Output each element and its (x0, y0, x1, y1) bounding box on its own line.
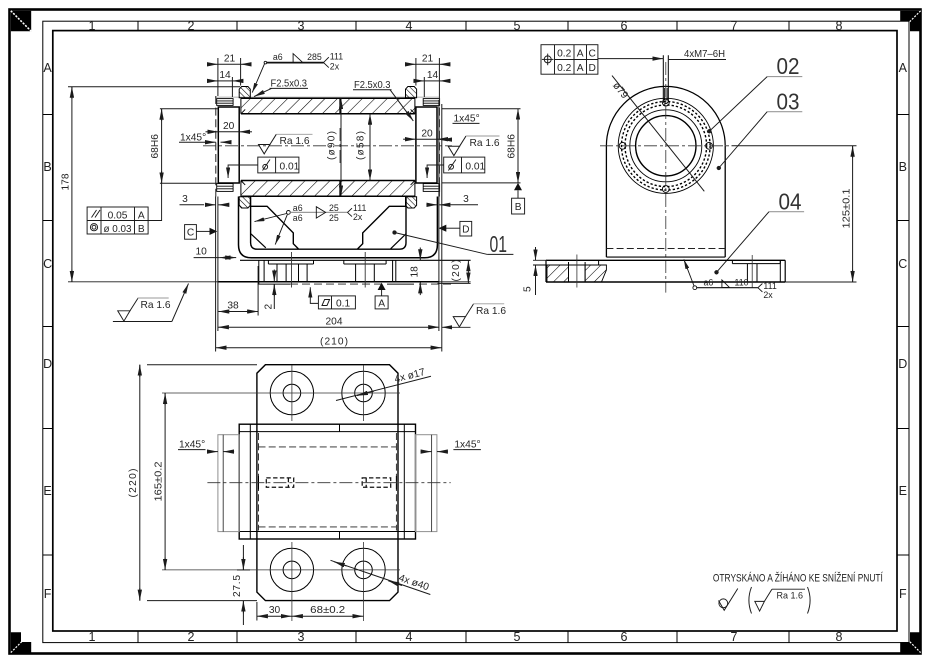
svg-text:1x45°: 1x45° (179, 440, 205, 451)
spotface hole top-left (270, 371, 313, 414)
svg-text:E: E (43, 484, 51, 498)
grid labels right (898, 61, 907, 601)
grid labels left (43, 61, 52, 601)
SECTION-VIEW (61, 51, 525, 351)
cavity walls and floor (251, 196, 406, 249)
spotface hole bottom-right (342, 548, 385, 591)
svg-text:C: C (589, 48, 596, 59)
dimension 27.5 (237, 545, 250, 625)
svg-text:285: 285 (307, 52, 322, 62)
svg-text:14: 14 (219, 70, 231, 81)
hole note 4x ø40 (330, 550, 433, 595)
svg-text:8: 8 (836, 19, 843, 33)
tolerance frame parallel+concentric (87, 183, 162, 234)
ring face circle (618, 98, 713, 193)
svg-text:B: B (899, 160, 907, 174)
NOTE (713, 572, 884, 614)
svg-text:Ra 1.6: Ra 1.6 (476, 306, 506, 317)
svg-text:4: 4 (406, 19, 413, 33)
bracket body outline (239, 197, 438, 258)
svg-text:F: F (44, 587, 52, 601)
right foot recess (732, 260, 780, 282)
hidden weld root line (606, 248, 725, 250)
foot hole edges (568, 262, 570, 282)
svg-text:1: 1 (89, 630, 96, 644)
svg-text:D: D (462, 225, 469, 236)
tube joint marks (339, 424, 341, 431)
dimension 5 (535, 247, 537, 295)
right foot hole centreline (751, 255, 753, 288)
right cap thread collar top (423, 99, 439, 106)
bolt hole left (619, 142, 626, 149)
svg-text:B: B (138, 224, 145, 235)
corner trim mark top-left (11, 11, 31, 31)
svg-text:03: 03 (777, 88, 800, 114)
svg-text:2: 2 (264, 304, 275, 310)
svg-text:7: 7 (731, 630, 738, 644)
svg-text:4xM7–6H: 4xM7–6H (684, 49, 725, 60)
view centreline horizontal (203, 145, 452, 147)
svg-text:2x: 2x (353, 212, 363, 222)
hidden bore lines (259, 433, 397, 531)
bolt hole top (662, 99, 669, 106)
leader to stud (598, 58, 663, 60)
left foot slot centreline (291, 252, 293, 288)
dimension 21 right (405, 58, 450, 96)
weld symbol base (684, 259, 763, 292)
weld symbol top (252, 54, 329, 93)
housing outer arc (606, 86, 725, 145)
base bottom extension to 125 dim (785, 281, 856, 283)
svg-text:ø 0.03: ø 0.03 (104, 224, 132, 235)
surface mark Ra 1.6 right-mid (448, 136, 466, 156)
svg-text:D: D (589, 63, 596, 74)
dimension 125±0.1 (732, 146, 857, 282)
svg-text:04: 04 (779, 188, 802, 214)
svg-text:5: 5 (522, 286, 533, 292)
svg-text:6: 6 (621, 630, 628, 644)
left recess step line (533, 264, 599, 266)
svg-text:A: A (43, 61, 52, 75)
tube upper wall (hatched) (241, 98, 415, 114)
svg-text:a6: a6 (293, 203, 303, 213)
base hatch left (547, 265, 569, 282)
dimension 20 left (206, 131, 253, 133)
runout frame right 0.01 (427, 157, 485, 178)
cavity ceiling left with chamfer (251, 206, 299, 249)
hole note 4x ø17 (333, 366, 431, 401)
dimension (ø90) (340, 98, 342, 196)
base plate bottom edge (218, 281, 439, 283)
tube body rectangle (239, 424, 415, 539)
dimension 14 right (413, 77, 450, 97)
svg-text:110: 110 (735, 278, 749, 288)
view centreline (207, 482, 450, 484)
svg-text:3: 3 (182, 194, 188, 205)
weld symbol cavity (255, 207, 353, 245)
dimension 2 (273, 270, 275, 310)
svg-text:(ø58): (ø58) (356, 131, 367, 160)
surface mark Ra 1.6 bottom-right (442, 304, 474, 328)
stud hole top (663, 55, 668, 103)
centreline vertical (665, 62, 667, 293)
svg-text:2: 2 (188, 630, 195, 644)
svg-text:2x: 2x (763, 290, 773, 300)
svg-text:A: A (577, 48, 584, 59)
bore circle (636, 116, 696, 176)
svg-text:27.5: 27.5 (232, 575, 243, 597)
dimension 68H6 left (160, 109, 218, 184)
svg-text:68H6: 68H6 (150, 134, 161, 159)
window edge right (391, 234, 406, 249)
dimension 18 (419, 248, 421, 296)
corner trim mark top-right (900, 11, 920, 31)
tube wall lines (239, 431, 415, 433)
svg-text:Ra 1.6: Ra 1.6 (470, 138, 500, 149)
dimension 21 left (207, 58, 252, 96)
centre cross vertical (339, 128, 341, 164)
left cap face hidden line (215, 96, 217, 197)
svg-text:OTRYSKÁNO A ŽÍHÁNO KE SNÍŽENÍ: OTRYSKÁNO A ŽÍHÁNO KE SNÍŽENÍ PNUTÍ (713, 572, 884, 585)
roughness symbol in note (755, 589, 805, 611)
grid labels bottom (89, 630, 843, 644)
svg-text:0.01: 0.01 (465, 161, 485, 172)
seal ring inner (dotted) (625, 105, 707, 187)
spotface hole top-right (342, 371, 385, 414)
surface mark Ra 1.6 left-mid (259, 134, 277, 154)
svg-text:D: D (898, 357, 907, 371)
svg-text:20: 20 (421, 128, 433, 139)
faint groove line above tube (215, 96, 440, 98)
base plate top edge (240, 259, 471, 261)
svg-text:7: 7 (731, 19, 738, 33)
flange ring top-left (hatched) (239, 87, 250, 98)
svg-text:C: C (187, 228, 194, 239)
svg-text:6: 6 (621, 19, 628, 33)
svg-text:Ra 1.6: Ra 1.6 (280, 136, 310, 147)
svg-text:38: 38 (227, 301, 239, 312)
svg-text:204: 204 (326, 317, 343, 328)
svg-text:02: 02 (777, 53, 800, 79)
left end cap body (218, 107, 239, 183)
flatness frame 0.1 (310, 287, 355, 309)
seal ring outer (dotted) (622, 102, 711, 191)
bore line long dashes at centreline (258, 476, 260, 490)
base hatch right of hole (585, 265, 606, 282)
svg-text:(210): (210) (320, 337, 348, 348)
svg-text:68±0.2: 68±0.2 (310, 605, 345, 616)
svg-text:01: 01 (490, 231, 508, 257)
svg-text:165±0.2: 165±0.2 (154, 461, 165, 501)
flange ring bottom-right (hatched) (406, 197, 417, 208)
datum D (460, 221, 472, 236)
svg-text:0.01: 0.01 (280, 161, 300, 172)
TOP-VIEW (128, 365, 481, 625)
svg-text:a6: a6 (273, 52, 283, 62)
weld seam line (606, 256, 725, 258)
FRONT-VIEW (522, 45, 856, 300)
counterbore circle (630, 110, 702, 182)
svg-text:3: 3 (298, 19, 305, 33)
svg-text:18: 18 (409, 266, 420, 278)
bolt hole right (706, 142, 713, 149)
hole centrelines top row (162, 392, 400, 394)
dimension (ø58) (369, 114, 371, 181)
svg-text:1: 1 (89, 19, 96, 33)
spotface hole bottom-left (270, 548, 313, 591)
svg-text:B: B (43, 160, 51, 174)
svg-text:0.2: 0.2 (557, 48, 571, 59)
position tolerance frame (541, 45, 598, 74)
bottom column ticks (137, 631, 139, 643)
svg-text:20: 20 (223, 121, 235, 132)
right cap face hidden line (438, 96, 440, 197)
svg-text:68H6: 68H6 (507, 134, 518, 159)
flange ring top-right (hatched) (406, 87, 417, 98)
parenthesis left (749, 587, 752, 614)
left foot grooves (259, 260, 314, 284)
bore chamfer ticks (241, 109, 245, 113)
svg-text:4: 4 (406, 630, 413, 644)
hidden pad line under base (258, 283, 290, 285)
end cap right (light) (416, 435, 437, 532)
svg-text:0.2: 0.2 (557, 63, 571, 74)
corner trim mark bottom-left (11, 632, 31, 652)
dimension (220) (140, 365, 257, 601)
dimension 20 right (403, 138, 450, 140)
svg-text:2x: 2x (330, 62, 340, 72)
svg-text:D: D (43, 357, 52, 371)
base left end (545, 260, 547, 282)
left cap thread collar top (217, 99, 233, 106)
svg-text:F: F (899, 587, 907, 601)
left row ticks (43, 114, 53, 116)
svg-text:(220): (220) (128, 469, 139, 498)
svg-text:25: 25 (329, 203, 339, 213)
base plate bottom (546, 281, 785, 283)
svg-text:0.05: 0.05 (108, 210, 128, 221)
svg-text:E: E (899, 484, 907, 498)
svg-text:B: B (515, 202, 522, 213)
svg-text:21: 21 (422, 54, 434, 65)
svg-text:25: 25 (329, 213, 339, 223)
dimension (20) (438, 260, 471, 283)
svg-text:111: 111 (330, 51, 343, 61)
svg-text:1x45°: 1x45° (454, 440, 480, 451)
press joint line between tube halves (339, 98, 341, 114)
top column ticks (137, 21, 139, 30)
base bottom extension line (68, 281, 218, 283)
svg-text:(20): (20) (451, 260, 462, 282)
svg-text:Ra 1.6: Ra 1.6 (141, 300, 171, 311)
tube lower wall (hatched) (241, 181, 415, 197)
datum A (378, 283, 386, 290)
svg-text:21: 21 (224, 54, 236, 65)
dimension 178 (68, 87, 240, 282)
keyway hidden right (362, 478, 391, 487)
right foot slot centreline (364, 252, 366, 288)
bolt hole bottom (662, 186, 669, 193)
flange ring bottom-left (hatched) (239, 197, 250, 208)
surface mark Ra 1.6 bottom-left (113, 284, 189, 322)
svg-text:5: 5 (514, 19, 521, 33)
window edge left (251, 234, 266, 248)
svg-text:(ø90): (ø90) (327, 131, 338, 160)
dimension 68H6 right (442, 109, 521, 183)
svg-text:10: 10 (196, 247, 208, 258)
svg-text:a6: a6 (704, 278, 714, 288)
svg-text:Ra 1.6: Ra 1.6 (777, 590, 804, 600)
svg-text:3: 3 (463, 194, 469, 205)
svg-text:3: 3 (298, 630, 305, 644)
svg-text:0.1: 0.1 (336, 298, 350, 309)
svg-text:5: 5 (514, 630, 521, 644)
end cap left (light) (218, 435, 239, 532)
cavity ceiling right with chamfer (358, 206, 406, 249)
svg-text:A: A (378, 298, 385, 309)
svg-text:125±0.1: 125±0.1 (841, 188, 852, 228)
svg-text:A: A (138, 210, 145, 221)
centreline horizontal (600, 145, 732, 147)
svg-text:14: 14 (427, 70, 439, 81)
right end cap body (416, 107, 437, 183)
housing sides (605, 146, 607, 257)
svg-text:2: 2 (188, 19, 195, 33)
datum C (185, 225, 197, 240)
svg-text:A: A (899, 61, 908, 75)
svg-text:30: 30 (269, 605, 281, 616)
right foot grooves (344, 260, 396, 282)
foot hole centreline (576, 255, 578, 288)
ø79 diameter line (612, 76, 704, 192)
corner trim mark bottom-right (900, 632, 920, 652)
left cap thread collar bottom (217, 184, 233, 192)
svg-text:8: 8 (836, 630, 843, 644)
base plate top (546, 259, 785, 261)
parenthesis right (808, 587, 811, 614)
svg-text:a6: a6 (293, 213, 303, 223)
base plate outline (257, 365, 398, 601)
base right end (784, 260, 786, 282)
keyway hidden left (266, 478, 293, 487)
right row ticks (897, 114, 909, 116)
grid labels top (89, 19, 843, 33)
datum B (514, 183, 522, 190)
base right chamfer line (779, 260, 781, 282)
dimension 165±0.2 (164, 393, 166, 570)
runout frame left 0.01 (228, 157, 299, 178)
hole centrelines bottom row (162, 569, 400, 571)
svg-text:178: 178 (61, 173, 72, 190)
dimension 14 left (207, 77, 243, 97)
svg-text:A: A (577, 63, 584, 74)
svg-text:C: C (898, 257, 907, 271)
right cap thread collar bottom (423, 184, 439, 192)
all-surface symbol (719, 589, 738, 611)
svg-text:C: C (43, 257, 52, 271)
